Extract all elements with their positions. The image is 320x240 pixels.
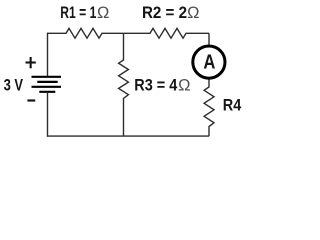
svg-text:R3 = 4: R3 = 4: [134, 76, 177, 95]
svg-text:R1 = 1: R1 = 1: [60, 3, 96, 22]
svg-text:R4: R4: [223, 95, 242, 114]
svg-text:Ω: Ω: [178, 77, 190, 95]
svg-text:A: A: [203, 52, 215, 74]
svg-text:Ω: Ω: [187, 4, 199, 22]
svg-text:3 V: 3 V: [4, 75, 24, 94]
svg-text:R2 = 2: R2 = 2: [142, 3, 187, 22]
svg-text:Ω: Ω: [97, 4, 109, 22]
